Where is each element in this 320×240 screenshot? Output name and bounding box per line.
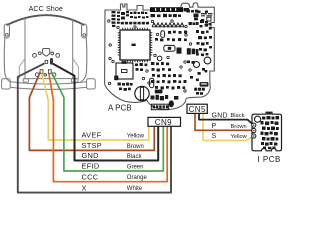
- ACC shoe foot left flare: [19, 59, 25, 79]
- shoe contact hole upper right: [51, 52, 54, 55]
- wire GND (black) from shoe pin to CN9: [53, 64, 159, 161]
- I PCB component field: [261, 116, 280, 149]
- svg-text:A PCB: A PCB: [108, 103, 132, 112]
- component cluster lower-middle of A PCB: [151, 62, 187, 90]
- shoe contact hole upper far-left: [33, 54, 37, 58]
- svg-text:Brown: Brown: [127, 144, 144, 150]
- I PCB board outline: [252, 112, 282, 151]
- capacitor bank C1-C8 top-left pad columns: [112, 11, 149, 27]
- inductor L1 rounded component: [164, 45, 175, 51]
- wire GND (black) CN5 to I PCB pad: [199, 113, 254, 125]
- svg-text:Green: Green: [127, 164, 144, 170]
- I PCB solder pad 1 (GND): [252, 123, 256, 127]
- svg-text:CCC: CCC: [82, 172, 99, 181]
- screw head on A PCB: [135, 86, 149, 100]
- svg-text:CN5: CN5: [189, 105, 206, 114]
- svg-text:Orange: Orange: [127, 175, 148, 181]
- shoe wire pad left: [40, 70, 43, 74]
- svg-text:Yellow: Yellow: [127, 133, 145, 139]
- svg-text:GND: GND: [82, 151, 99, 160]
- ACC shoe plate bottom left step: [23, 79, 28, 82]
- shoe contact hole upper far-right: [56, 54, 60, 58]
- ACC shoe plate bottom edge: [24, 78, 78, 80]
- I PCB top tab component: [267, 113, 271, 115]
- svg-text:Black: Black: [127, 154, 143, 160]
- svg-text:X: X: [82, 183, 87, 192]
- ACC shoe bottom rail lower arc: [10, 87, 86, 89]
- component bits lower-left of A PCB: [118, 63, 148, 91]
- electrolytic capacitor blob in bulge: [169, 100, 174, 107]
- ACC shoe right rail capsule: [82, 24, 87, 38]
- capacitor C9 pill component: [161, 31, 165, 38]
- shoe center sync pin: [50, 58, 53, 65]
- component column along right edge of A PCB: [196, 11, 212, 57]
- component blobs above bulge connector: [151, 95, 179, 101]
- shoe lower contact hole left: [35, 73, 39, 77]
- svg-text:STSP: STSP: [82, 141, 103, 150]
- ACC shoe plate bottom right step: [72, 79, 79, 82]
- component cluster right of top bar: [184, 8, 199, 25]
- ACC shoe outline top arc: [7, 15, 85, 25]
- wire P (brown) CN5 to I PCB pad: [195, 113, 254, 130]
- connector footprint box inside bottom bulge: [151, 104, 168, 110]
- ACC shoe left rail capsule: [4, 24, 9, 38]
- wire EFID (green) from shoe pad to CN9: [51, 72, 163, 171]
- wire X (white) from shoe pin to CN9: [18, 63, 171, 192]
- shoe wire pad right: [48, 70, 51, 74]
- I PCB solder pad 2 (P): [252, 128, 256, 132]
- via ring (large) near right edge: [204, 57, 211, 64]
- connector J2 sawtooth pin row: [152, 23, 184, 27]
- ACC shoe bottom rail left end cap: [2, 79, 11, 89]
- connector CN5 label box: [187, 104, 207, 114]
- capacitor pill component lower-middle: [150, 78, 154, 87]
- connector pins inside bottom bulge: [153, 105, 169, 108]
- svg-text:AVEF: AVEF: [82, 131, 102, 140]
- ACC shoe left side line: [4, 37, 10, 82]
- svg-text:White: White: [127, 186, 143, 192]
- svg-text:GND: GND: [212, 112, 228, 119]
- via ring (medium) near right edge: [194, 62, 200, 68]
- I PCB solder pad 3 (S): [252, 134, 256, 138]
- op-amp / main IC U1 on A PCB: [118, 28, 153, 63]
- resistor row R8-R13 second row: [151, 14, 182, 17]
- wire CCC (orange) from shoe pad to CN9: [49, 74, 167, 182]
- connector J1 dark bar top of A PCB: [150, 7, 183, 12]
- ACC shoe foot right flare: [73, 59, 79, 79]
- svg-text:ACC Shoe: ACC Shoe: [29, 5, 63, 13]
- shoe center shield cutout: [43, 48, 50, 56]
- wire AVEF (yellow) from shoe pad to CN9: [42, 74, 149, 141]
- shoe contact hole upper left: [38, 52, 41, 55]
- dark bar component lower-middle: [155, 90, 163, 94]
- ACC shoe mounting plate left edge: [24, 18, 26, 79]
- svg-text:P: P: [212, 123, 217, 130]
- via ring below inductor: [157, 56, 162, 61]
- IC U2 (small) on A PCB: [114, 61, 133, 80]
- connector CN5 header component on board edge: [200, 82, 209, 87]
- tiny silkscreen text block top-right: [201, 13, 213, 21]
- transistor Q1 blob pair: [177, 48, 199, 55]
- ACC shoe right side line: [81, 37, 87, 82]
- resistor chain R1-R7 below IC top: [121, 22, 149, 25]
- shoe lower contact hole right: [52, 73, 56, 77]
- connector J2 base line: [152, 26, 184, 28]
- I PCB corner hole: [255, 116, 261, 122]
- pads below CN5 header: [194, 88, 205, 95]
- ACC shoe mounting plate right edge: [72, 19, 74, 79]
- mid-board component cluster: [155, 31, 187, 42]
- svg-text:Black: Black: [231, 113, 245, 119]
- wire STSP (brown) from shoe pad to CN9: [29, 72, 154, 151]
- wire S (yellow) CN5 to I PCB pad: [203, 113, 254, 140]
- ACC shoe bottom rail right end cap: [87, 79, 96, 89]
- svg-text:EFID: EFID: [82, 162, 100, 171]
- shoe lower contact hole middle: [44, 74, 47, 77]
- vias scattered on A PCB: [108, 20, 192, 92]
- component bits right-lower region of A PCB: [187, 61, 207, 82]
- svg-text:I PCB: I PCB: [257, 155, 281, 164]
- ACC shoe bottom rail upper arc: [10, 82, 86, 84]
- connector CN9 label box: [148, 117, 181, 127]
- A PCB board outline: [105, 3, 215, 110]
- svg-text:Yellow: Yellow: [231, 134, 248, 140]
- shoe small pad near pin: [45, 60, 48, 63]
- svg-text:S: S: [212, 133, 217, 140]
- svg-text:Brown: Brown: [231, 124, 247, 130]
- svg-text:CN9: CN9: [155, 118, 172, 127]
